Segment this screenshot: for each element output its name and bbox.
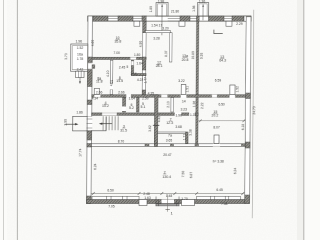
svg-text:2: 2 (164, 170, 166, 174)
top wall window W3 (168, 16, 180, 21)
svg-text:20.47: 20.47 (163, 153, 171, 157)
svg-text:6.87: 6.87 (189, 172, 193, 179)
svg-text:8.37: 8.37 (164, 50, 168, 57)
svg-text:1.63: 1.63 (144, 196, 151, 200)
svg-text:28.1: 28.1 (156, 64, 163, 68)
bottom radiator band right (197, 196, 241, 199)
svg-text:4.01: 4.01 (109, 80, 113, 87)
room7a top wall y132.5 (158, 132, 186, 134)
vestibule box 2 (198, 3, 209, 17)
long interior wall y95 (92, 95, 246, 98)
svg-text:1.98: 1.98 (158, 0, 165, 4)
interior wall x156 hatch (full, y95-146) (154, 95, 158, 147)
radiator under window W3 (179, 21, 185, 26)
svg-text:7.05: 7.05 (108, 205, 115, 209)
svg-text:21.80: 21.80 (171, 9, 179, 13)
16a door opening in left wall (87, 63, 93, 69)
vestibule1 door opening (146, 16, 168, 21)
svg-text:6.24: 6.24 (233, 168, 237, 175)
long interior wall y112 (92, 113, 199, 116)
svg-text:1.52: 1.52 (235, 86, 239, 93)
svg-text:2.22: 2.22 (200, 102, 204, 109)
svg-text:4.90: 4.90 (139, 41, 143, 48)
svg-text:6.59: 6.59 (215, 78, 222, 82)
svg-text:3.22: 3.22 (178, 79, 185, 83)
x124 door opening (122, 107, 126, 112)
svg-text:1.70: 1.70 (181, 197, 188, 201)
svg-text:2.45: 2.45 (119, 65, 126, 69)
svg-text:11.8: 11.8 (96, 79, 103, 83)
svg-text:1.51: 1.51 (185, 86, 189, 93)
svg-text:1.64: 1.64 (136, 62, 143, 66)
right exterior wall (245, 17, 251, 204)
left exterior wall (87, 16, 93, 204)
wall pier into room 8a (92, 65, 95, 69)
svg-text:1.52: 1.52 (77, 46, 84, 50)
svg-text:1.36: 1.36 (192, 101, 196, 108)
vestibule2 door opening (199, 17, 208, 21)
staircase arrow (head left) (100, 123, 112, 125)
bottom entrance porch steps (156, 197, 179, 206)
room10 bottom door opening (130, 57, 136, 60)
svg-text:6.45: 6.45 (216, 188, 223, 192)
left page fold line (16, 0, 18, 240)
right page fold line (297, 0, 304, 240)
svg-text:1.71: 1.71 (182, 134, 186, 141)
bottom porch wing right (181, 200, 194, 206)
bottom radiator band left (92, 196, 139, 199)
top wall hatch segment 2 (118, 16, 133, 21)
room7a right wall x187.5 (185, 132, 188, 144)
svg-text:64.3: 64.3 (219, 58, 226, 62)
wall y112 stair opening (102, 113, 117, 116)
top wall door opening left of vestibule (146, 17, 156, 21)
door leaf room13a (above wall y95) (181, 85, 186, 95)
svg-text:1.80: 1.80 (134, 53, 141, 57)
top wall window W5 (224, 16, 232, 21)
top wall hatch segment 1 (93, 16, 108, 21)
left wall door opening to porch (87, 117, 93, 131)
room15 dimension line y121 (199, 120, 246, 122)
small room5 left wall door gap (131, 61, 134, 65)
bottom dimension line (91, 193, 244, 195)
svg-text:1.54: 1.54 (151, 24, 158, 28)
svg-text:8.07: 8.07 (213, 125, 220, 129)
svg-text:1.37: 1.37 (190, 113, 197, 117)
door leaf room13 (above wall y95) (230, 85, 235, 95)
dim tick on wall x156 (153, 124, 159, 126)
svg-text:1.56: 1.56 (192, 5, 196, 12)
svg-text:3.38: 3.38 (188, 129, 192, 136)
svg-text:7.00: 7.00 (113, 51, 120, 55)
wall y95 door openings (94, 94, 100, 98)
svg-text:1.96: 1.96 (76, 40, 83, 44)
left page edge line (3, 0, 5, 240)
right wall hatch segments (246, 93, 251, 99)
top wall window W2 (133, 16, 142, 21)
svg-text:9.93: 9.93 (200, 53, 204, 60)
interior wall: room17 bottom (y31) (145, 31, 170, 33)
porch entrance arrow (head right) (66, 123, 77, 125)
top-right corner wall piece (244, 16, 251, 21)
door rungs in left wall opening (87, 119, 92, 128)
svg-text:14: 14 (182, 99, 186, 103)
svg-text:5.2: 5.2 (129, 106, 134, 110)
porch centerline (167, 195, 169, 212)
hall top wall y145 (thin double with piers) (91, 144, 245, 147)
svg-text:10.80: 10.80 (191, 51, 195, 59)
door leaf at wall y95 left opening (94, 88, 99, 94)
interior wall x111 (8a/8 divider) (110, 60, 113, 94)
svg-text:3.73: 3.73 (64, 53, 68, 60)
svg-text:2.66: 2.66 (96, 90, 103, 94)
svg-text:3.62: 3.62 (148, 125, 152, 132)
svg-text:20.8: 20.8 (182, 58, 189, 62)
svg-text:3.68: 3.68 (175, 125, 182, 129)
L-mark top right (214, 30, 223, 34)
interior wall x138 (room6/5) (136, 98, 139, 113)
top wall junction hatch (196, 16, 199, 21)
svg-text:2.42: 2.42 (77, 67, 84, 71)
svg-text:8.70: 8.70 (118, 139, 125, 143)
wall y112 door openings (175, 113, 182, 116)
left entrance porch box (73, 116, 88, 131)
x111 door opening (110, 84, 113, 90)
svg-text:7.08: 7.08 (221, 202, 228, 206)
svg-text:3.20: 3.20 (162, 27, 169, 31)
svg-text:7a: 7a (168, 133, 172, 137)
interior wall x172 (corridor/room14) (171, 98, 174, 113)
svg-text:4.42: 4.42 (157, 116, 161, 123)
interior wall x197 (rooms 13a/13 divider, full height) (196, 21, 199, 144)
small room5 left wall x132 (131, 60, 133, 73)
svg-text:2.13: 2.13 (166, 101, 170, 108)
svg-text:20.2: 20.2 (211, 114, 218, 118)
top wall hatch segment 5 (208, 16, 224, 21)
room16a annex walls (71, 44, 88, 71)
hall top wall door opening room15 (213, 143, 220, 147)
svg-text:12.3: 12.3 (166, 121, 173, 125)
top wall hatch segment 6 (232, 16, 244, 21)
svg-text:3.23: 3.23 (181, 107, 188, 111)
svg-text:6.50: 6.50 (107, 189, 114, 193)
svg-text:14.5: 14.5 (116, 79, 123, 83)
svg-text:5.1: 5.1 (141, 105, 146, 109)
radiator under window W2 (134, 21, 140, 26)
top exterior wall band (88, 16, 251, 21)
svg-text:4.22: 4.22 (137, 78, 144, 82)
bottom exterior wall (87, 200, 245, 204)
svg-text:1.86: 1.86 (76, 111, 83, 115)
svg-text:2.90: 2.90 (64, 119, 68, 126)
svg-text:1.90: 1.90 (175, 114, 182, 118)
svg-text:130.4: 130.4 (162, 175, 171, 179)
svg-text:6.50: 6.50 (218, 102, 225, 106)
interior wall x124 (room4/6) (123, 98, 126, 113)
svg-text:1.77: 1.77 (144, 77, 148, 84)
left wall hatch segments (88, 57, 93, 63)
svg-text:4.35: 4.35 (148, 91, 155, 95)
overall right dimension line 24.70 (252, 10, 254, 218)
svg-text:3.28: 3.28 (153, 36, 160, 40)
svg-text:31.5: 31.5 (120, 128, 127, 132)
svg-text:2.50: 2.50 (142, 97, 149, 101)
svg-text:2.29: 2.29 (236, 22, 243, 26)
svg-text:1.16: 1.16 (130, 72, 137, 76)
interior wall x143 room10 right / room12 left (142, 21, 146, 96)
door leaf room15 (above hall wall) (214, 135, 219, 144)
interior wall: room10 bottom (92, 57, 146, 59)
svg-text:24.70: 24.70 (252, 106, 256, 114)
svg-text:4.60: 4.60 (91, 40, 95, 47)
room16a entrance stub with steps (76, 71, 85, 77)
top wall window W4 (190, 16, 197, 21)
svg-text:1.80: 1.80 (149, 6, 153, 13)
svg-text:5: 5 (126, 65, 128, 69)
svg-text:h= 3.38: h= 3.38 (213, 160, 224, 164)
svg-text:17.74: 17.74 (78, 148, 82, 156)
staircase treads (103, 117, 118, 131)
svg-text:1.36: 1.36 (199, 0, 206, 3)
svg-text:1.78: 1.78 (77, 57, 84, 61)
svg-text:10.2: 10.2 (102, 104, 109, 108)
svg-text:2.66: 2.66 (118, 90, 125, 94)
staircase enclosure (92, 117, 107, 131)
vestibule2 dim arrow (202, 5, 204, 21)
top wall window W1 (108, 16, 118, 21)
bottom porch wing left (139, 200, 147, 206)
svg-text:1.64: 1.64 (129, 97, 136, 101)
centerline bottom tick (166, 208, 170, 210)
bottom wall entrance opening (161, 199, 174, 204)
svg-text:3.65: 3.65 (166, 139, 173, 143)
top wall hatch segment 3 (142, 16, 147, 21)
svg-text:1.48: 1.48 (166, 194, 173, 198)
svg-text:6.18: 6.18 (241, 124, 245, 131)
interior wall x170 room12 right (169, 33, 172, 62)
svg-text:4.34: 4.34 (92, 97, 99, 101)
top wall hatch segment 4 (180, 16, 190, 21)
vestibule box 1 (156, 3, 168, 17)
svg-text:4.10: 4.10 (106, 70, 110, 77)
svg-text:35.8: 35.8 (114, 40, 121, 44)
radiator under window W5 (226, 21, 232, 26)
small room5 bottom wall y73.5 (131, 74, 146, 76)
vestibule1 dim arrow (161, 5, 163, 36)
svg-text:6.24: 6.24 (93, 163, 97, 170)
room16a entrance arrow (79, 78, 81, 83)
svg-text:7.50: 7.50 (181, 171, 185, 178)
